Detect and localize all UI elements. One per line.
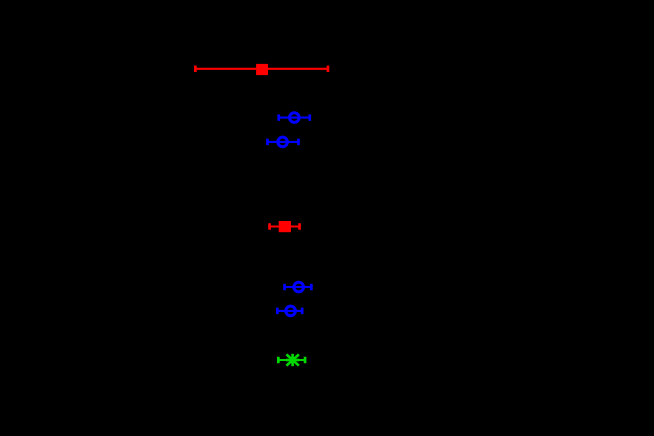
right cap 5	[310, 284, 313, 291]
left cap 5	[283, 284, 286, 291]
wire: error bar line 6	[277, 310, 302, 312]
wire: error bar line 7	[278, 359, 305, 361]
open circle marker 2	[290, 113, 300, 123]
left cap 3	[266, 139, 269, 146]
left cap 1	[194, 66, 197, 73]
open circle marker 5	[294, 282, 304, 292]
left cap 7	[277, 357, 280, 364]
right cap 6	[301, 308, 304, 315]
square marker 4	[279, 221, 291, 232]
series 2 (blue) measurement 5: error bar with caps and open circle marker	[283, 282, 313, 292]
right cap 3	[297, 139, 300, 146]
open circle marker 6	[286, 306, 296, 316]
wire: error bar line 1	[195, 68, 328, 70]
series 2 (blue) measurement 2: error bar with caps and open circle marker	[277, 113, 311, 123]
wire: error bar line 3	[267, 141, 298, 143]
asterisk marker 7: vertical arm	[291, 354, 294, 366]
right cap 1	[327, 66, 330, 73]
series 3 (green) measurement 7: error bar with caps and asterisk marker	[277, 354, 306, 366]
series 1 (red) measurement 1: horizontal error bar with caps and filled square marker	[194, 64, 329, 75]
square marker 1	[256, 64, 268, 75]
open circle marker 3	[278, 137, 288, 147]
asterisk marker 7: horizontal arm	[286, 359, 299, 362]
left cap 6	[276, 308, 279, 315]
series 1 (red) measurement 4: error bar with caps and filled square marker	[268, 221, 301, 232]
left cap 2	[277, 114, 280, 121]
wire: error bar line 2	[279, 117, 310, 119]
right cap 4	[298, 223, 301, 230]
right cap 2	[308, 114, 311, 121]
right cap 7	[304, 357, 307, 364]
left cap 4	[268, 223, 271, 230]
series 2 (blue) measurement 3: error bar with caps and open circle marker	[266, 137, 300, 147]
asterisk marker 7: diagonal arm SW-NE	[286, 354, 299, 365]
wire: error bar line 5	[285, 286, 312, 288]
wire: error bar line 4	[270, 225, 300, 227]
asterisk marker 7: diagonal arm NW-SE	[286, 354, 299, 365]
series 2 (blue) measurement 6: error bar with caps and open circle marker	[276, 306, 304, 316]
